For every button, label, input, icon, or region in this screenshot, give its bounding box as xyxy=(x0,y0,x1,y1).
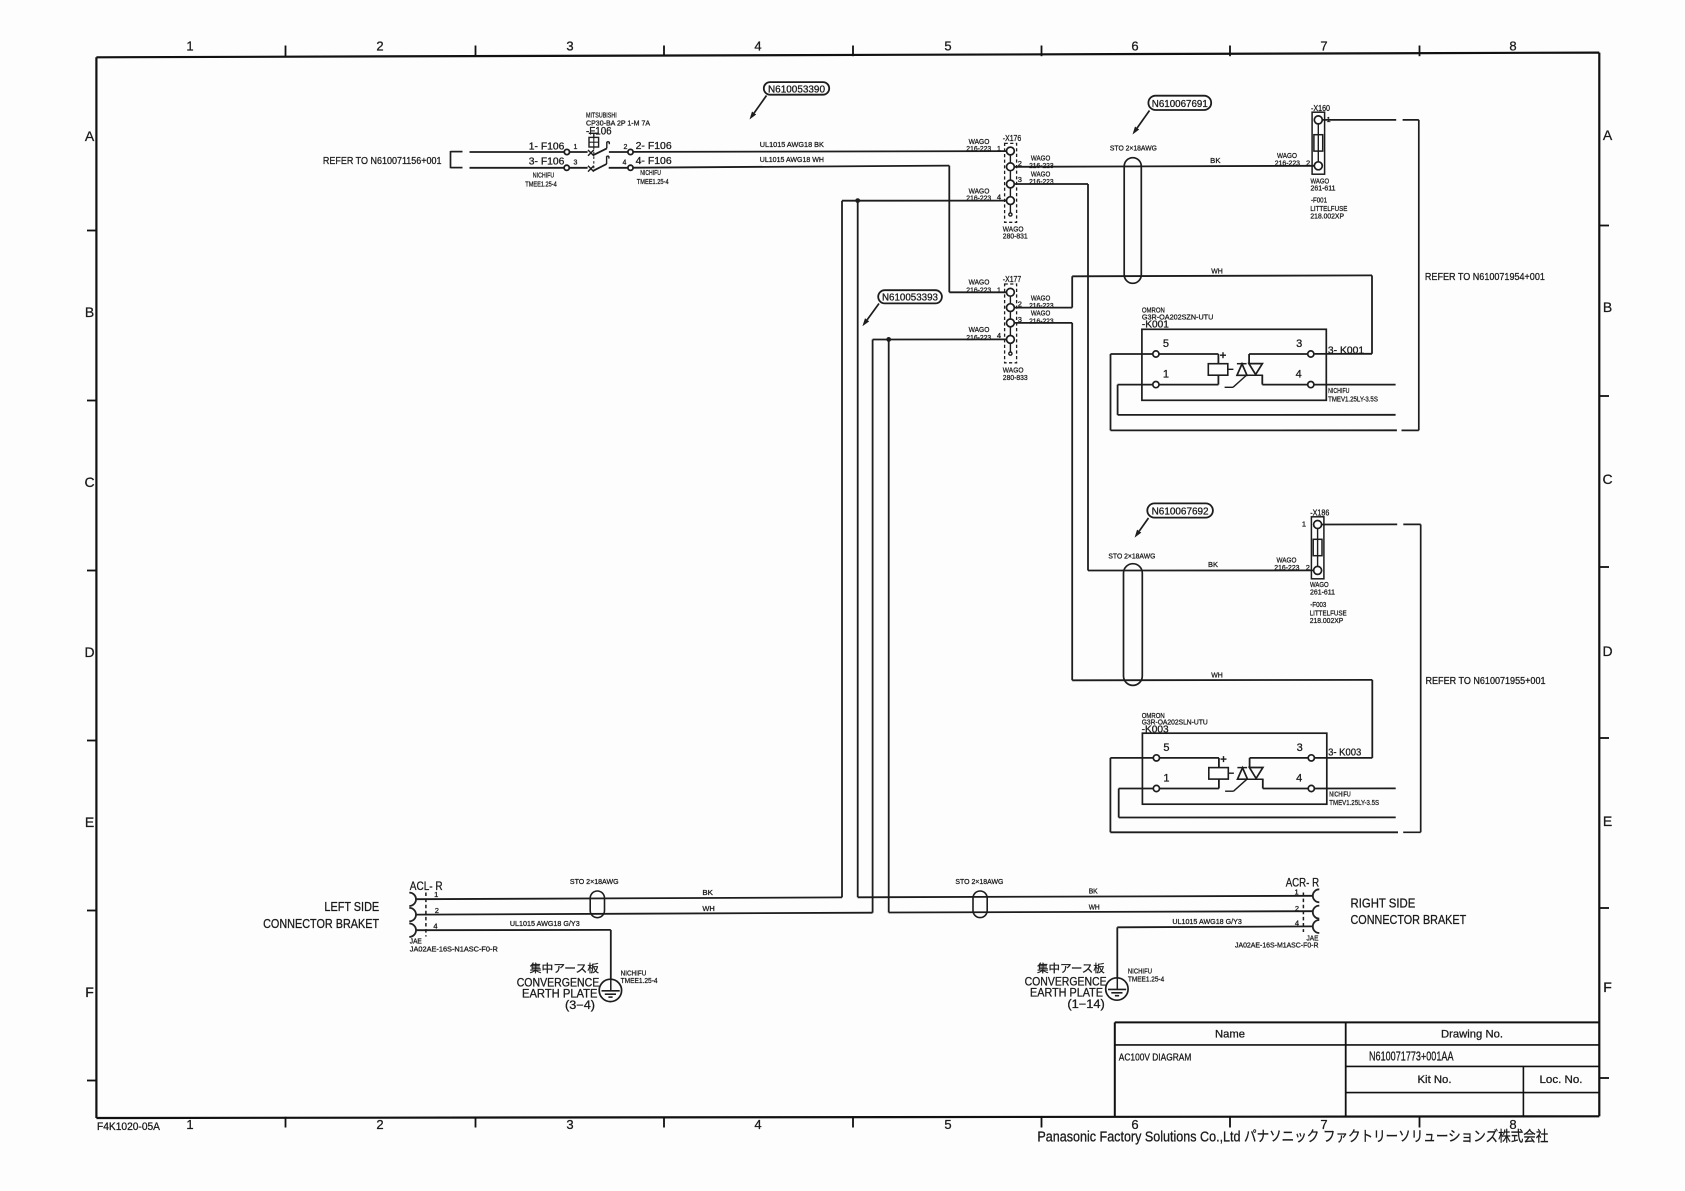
svg-text:3: 3 xyxy=(574,159,578,166)
svg-text:CONNECTOR BRAKET: CONNECTOR BRAKET xyxy=(263,917,379,931)
svg-text:4: 4 xyxy=(754,39,761,54)
svg-text:BK: BK xyxy=(1089,886,1098,895)
svg-text:D: D xyxy=(1602,643,1612,659)
frame column numbers bottom xyxy=(186,1117,1516,1132)
svg-text:-F106: -F106 xyxy=(586,126,612,138)
svg-text:NICHIFU: NICHIFU xyxy=(533,171,554,180)
svg-text:CONNECTOR BRAKET: CONNECTOR BRAKET xyxy=(1351,913,1467,927)
relay K001 pins xyxy=(1153,351,1314,388)
wire G/Y3 ACR-R pin4 to earth plate xyxy=(1117,926,1313,978)
svg-text:STO 2×18AWG: STO 2×18AWG xyxy=(570,877,619,886)
frame row ticks right xyxy=(1599,226,1609,1079)
wire X160 pin1 to right bracket xyxy=(1322,119,1397,121)
svg-text:UL1015 AWG18 WH: UL1015 AWG18 WH xyxy=(760,155,824,164)
relay K003 pin numbers xyxy=(1163,742,1302,785)
svg-text:8: 8 xyxy=(1509,39,1516,54)
svg-text:(3−4): (3−4) xyxy=(565,1000,595,1012)
title block xyxy=(1115,1022,1600,1116)
callout N610067692 xyxy=(1147,503,1213,517)
wire WH lower run to K003 pin3 xyxy=(1072,680,1372,758)
wire BK X176 pin2 to X160 pin2 xyxy=(1014,166,1315,167)
svg-text:TMEE1.25-4: TMEE1.25-4 xyxy=(1128,974,1164,983)
svg-text:4: 4 xyxy=(1296,773,1302,785)
svg-text:RIGHT SIDE: RIGHT SIDE xyxy=(1351,897,1416,911)
cable sheath STO 2x18AWG (middle) xyxy=(1124,564,1143,686)
svg-text:LEFT SIDE: LEFT SIDE xyxy=(324,900,379,914)
svg-text:E: E xyxy=(1603,813,1612,829)
svg-text:TMEE1.25-4: TMEE1.25-4 xyxy=(637,177,669,186)
svg-text:-X177: -X177 xyxy=(1003,275,1022,284)
svg-text:3: 3 xyxy=(1296,338,1302,350)
svg-text:4: 4 xyxy=(433,922,437,931)
svg-text:REFER TO N610071156+001: REFER TO N610071156+001 xyxy=(323,155,442,167)
svg-text:AC100V DIAGRAM: AC100V DIAGRAM xyxy=(1119,1052,1192,1064)
svg-text:1: 1 xyxy=(1163,773,1169,785)
svg-text:集中アース板: 集中アース板 xyxy=(530,961,599,975)
svg-text:B: B xyxy=(85,304,94,320)
svg-text:216-223: 216-223 xyxy=(1029,161,1054,170)
connector ACL-R (JAE JA02AE-16S-N1ASC-F0-R) xyxy=(409,893,426,937)
svg-text:1: 1 xyxy=(186,39,193,54)
wire WH X177 pin2 up and right to K001 pin3 xyxy=(1014,275,1372,354)
svg-text:2: 2 xyxy=(1306,563,1310,572)
F106 terminal labels xyxy=(525,141,672,188)
svg-text:280-831: 280-831 xyxy=(1003,232,1028,241)
svg-text:2: 2 xyxy=(435,906,439,915)
callout N610053393 xyxy=(878,290,942,304)
relay K003 pins xyxy=(1153,755,1314,792)
callout N610067691 arrow xyxy=(1137,111,1149,128)
svg-text:BK: BK xyxy=(1208,560,1218,569)
svg-text:A: A xyxy=(85,128,95,144)
wire X176 pin3 down xyxy=(1014,184,1088,571)
svg-text:261-611: 261-611 xyxy=(1311,184,1336,193)
svg-text:4: 4 xyxy=(1296,369,1302,381)
wire X186 pin1 to right bracket xyxy=(1321,523,1397,525)
wire WH F106 to X177 pin1 xyxy=(633,166,1006,293)
labels NICHIFU TMEE1.25-4 (left earth) xyxy=(621,968,658,985)
svg-text:216-223: 216-223 xyxy=(966,144,991,153)
svg-text:D: D xyxy=(84,644,94,660)
labels JAE JA02AE-16S-N1ASC-F0-R xyxy=(410,937,499,954)
relay K003 internal circuit xyxy=(1159,756,1308,791)
svg-text:5: 5 xyxy=(944,39,951,54)
svg-text:218.002XP: 218.002XP xyxy=(1310,616,1344,625)
relay -K003 labels (OMRON G3R-OA202SLN-UTU) xyxy=(1142,711,1208,736)
callout N610067692 arrow xyxy=(1139,518,1148,531)
svg-text:216-223: 216-223 xyxy=(1029,316,1054,325)
svg-text:3: 3 xyxy=(566,1117,573,1132)
svg-text:E: E xyxy=(85,814,94,830)
relay K001 internal circuit xyxy=(1159,352,1308,387)
svg-text:WH: WH xyxy=(1211,670,1223,679)
svg-text:NICHIFU: NICHIFU xyxy=(640,168,661,177)
wire K003 pin4 to off-page xyxy=(1314,787,1395,789)
label LEFT SIDE CONNECTOR BRAKET xyxy=(263,900,379,931)
relay -K001 labels (OMRON G3R-OA202SZN-UTU) xyxy=(1142,306,1213,331)
wire K001 pin1 loop xyxy=(1118,385,1396,415)
svg-text:Drawing No.: Drawing No. xyxy=(1441,1029,1503,1041)
svg-text:218.002XP: 218.002XP xyxy=(1310,211,1344,220)
X186 labels xyxy=(1274,509,1346,625)
wire BK from bracket to breaker F106 terminal 1 xyxy=(470,151,565,153)
svg-text:5: 5 xyxy=(1163,338,1169,350)
wire WH from bracket to breaker F106 terminal 3 xyxy=(470,167,565,169)
svg-text:A: A xyxy=(1603,127,1613,143)
svg-text:261-611: 261-611 xyxy=(1310,588,1335,597)
X160 labels xyxy=(1275,104,1348,220)
svg-text:1: 1 xyxy=(997,144,1001,153)
labels NICHIFU TMEE1.25-4 (right earth) xyxy=(1128,967,1164,984)
svg-text:TMEE1.25-4: TMEE1.25-4 xyxy=(525,179,557,188)
svg-text:1: 1 xyxy=(1302,520,1306,529)
connector -X177 (WAGO 280-833 strip) xyxy=(1005,284,1017,363)
svg-text:216-223: 216-223 xyxy=(966,333,991,342)
fuse holder -X160 with fuse -F001 (LITTELFUSE 218.002XP) xyxy=(1312,112,1325,174)
callout N610053390 arrow xyxy=(754,96,766,113)
svg-text:Panasonic Factory Solutions Co: Panasonic Factory Solutions Co.,Ltd パナソニ… xyxy=(1037,1129,1548,1146)
svg-text:集中アース板: 集中アース板 xyxy=(1037,961,1105,975)
svg-text:TMEV1.25LY-3.5S: TMEV1.25LY-3.5S xyxy=(1329,798,1379,807)
labels convergence earth plate (1-14) xyxy=(1025,961,1107,1011)
svg-text:7: 7 xyxy=(1320,39,1327,54)
svg-text:B: B xyxy=(1603,299,1612,315)
wire BK X176 pin3 vertical to X186 pin2 xyxy=(1088,569,1314,571)
junction dot X176 pin4 branch xyxy=(855,198,860,203)
label RIGHT SIDE CONNECTOR BRAKET xyxy=(1351,897,1467,927)
circuit breaker F106 (MITSUBISHI CP30-BA 2P 1-M 7A) xyxy=(564,133,633,171)
svg-text:BK: BK xyxy=(702,888,713,897)
frame column ticks top xyxy=(286,46,1420,57)
title block texts xyxy=(1119,1029,1583,1087)
wire X177 pin4 to left verticals xyxy=(873,339,1007,912)
svg-text:ACR- R: ACR- R xyxy=(1286,876,1320,890)
earth ground symbol (right convergence earth plate) xyxy=(1106,978,1128,1000)
svg-text:6: 6 xyxy=(1131,39,1138,54)
svg-text:2: 2 xyxy=(1306,158,1310,167)
wire K001 pin4 to off-page xyxy=(1314,384,1396,386)
svg-text:5: 5 xyxy=(944,1117,951,1132)
svg-text:N610067692: N610067692 xyxy=(1152,507,1209,518)
frame column numbers top xyxy=(186,39,1516,54)
svg-text:BK: BK xyxy=(1210,156,1220,165)
svg-text:N610053393: N610053393 xyxy=(882,293,938,304)
svg-text:280-833: 280-833 xyxy=(1003,373,1028,382)
cable sheath STO 2x18AWG (bottom right) xyxy=(973,891,987,918)
wire WH bottom left (ACL-R pin2) xyxy=(416,913,873,915)
F106 part labels xyxy=(586,110,650,137)
svg-text:2: 2 xyxy=(376,39,383,54)
svg-text:5: 5 xyxy=(1163,742,1169,754)
svg-text:3: 3 xyxy=(1018,175,1022,184)
X176 pin labels WAGO 216-223 xyxy=(966,137,1053,203)
svg-text:3: 3 xyxy=(1297,742,1303,754)
svg-text:4: 4 xyxy=(1295,919,1299,928)
wire X177 pin3 down to lower WH xyxy=(1014,323,1072,680)
svg-text:1- F106: 1- F106 xyxy=(529,141,565,152)
svg-text:C: C xyxy=(84,474,94,490)
svg-text:3- K003: 3- K003 xyxy=(1328,747,1361,759)
labels NICHIFU TMEV1.25LY-3.5S (K003 pin4) xyxy=(1329,789,1379,806)
svg-text:REFER TO N610071954+001: REFER TO N610071954+001 xyxy=(1425,271,1545,283)
wire G/Y3 ACL-R pin4 to earth plate xyxy=(416,930,611,979)
off-page bracket REFER TO N610071955+001 xyxy=(1403,524,1421,832)
svg-text:2: 2 xyxy=(376,1117,383,1132)
callout N610053393 arrow xyxy=(867,304,879,320)
callout N610067691 xyxy=(1148,96,1211,110)
wire WH bottom right (to ACR-R pin2) xyxy=(889,911,1313,912)
labels convergence earth plate (3-4) xyxy=(517,961,600,1012)
svg-text:UL1015 AWG18 G/Y3: UL1015 AWG18 G/Y3 xyxy=(1172,917,1242,926)
svg-text:4: 4 xyxy=(754,1117,761,1132)
svg-text:F: F xyxy=(1603,979,1612,995)
wire X176 pin4 to left verticals xyxy=(842,201,1007,898)
svg-text:EARTH PLATE: EARTH PLATE xyxy=(522,988,598,1000)
svg-text:WH: WH xyxy=(1211,267,1223,276)
svg-text:JA02AE-16S-M1ASC-F0-R: JA02AE-16S-M1ASC-F0-R xyxy=(1235,940,1319,949)
ACR-R pin numbers xyxy=(1295,888,1299,928)
solid state relay relay K001 box xyxy=(1142,329,1326,400)
svg-text:216-223: 216-223 xyxy=(1274,563,1299,572)
svg-text:WH: WH xyxy=(1089,902,1100,911)
frame row letters left xyxy=(84,128,94,1000)
frame column ticks bottom xyxy=(286,1117,1420,1128)
off-page bracket REFER TO N610071954+001 xyxy=(1402,120,1419,431)
svg-text:-X160: -X160 xyxy=(1311,104,1330,113)
frame row letters right xyxy=(1602,127,1612,995)
svg-text:4: 4 xyxy=(623,159,627,166)
svg-text:3: 3 xyxy=(566,39,573,54)
svg-text:-X176: -X176 xyxy=(1003,134,1022,143)
wire K001 pin5 loop to bracket xyxy=(1111,354,1397,430)
label WAGO 280-833 xyxy=(1003,365,1028,381)
X177 pin labels WAGO 216-223 xyxy=(966,277,1053,342)
svg-text:UL1015 AWG18 G/Y3: UL1015 AWG18 G/Y3 xyxy=(510,919,580,928)
svg-text:N610067691: N610067691 xyxy=(1152,99,1208,110)
svg-text:4- F106: 4- F106 xyxy=(636,156,673,167)
svg-text:STO 2×18AWG: STO 2×18AWG xyxy=(955,877,1003,886)
labels JAE JA02AE-16S-M1ASC-F0-R xyxy=(1235,934,1319,950)
svg-text:3- K001: 3- K001 xyxy=(1328,344,1364,356)
svg-text:EARTH PLATE: EARTH PLATE xyxy=(1030,988,1103,1000)
fuse holder -X186 with fuse -F003 (LITTELFUSE 218.002XP) xyxy=(1311,517,1324,579)
svg-text:2: 2 xyxy=(624,144,628,151)
svg-text:F4K1020-05A: F4K1020-05A xyxy=(97,1121,161,1133)
bottom wire labels BK WH left half xyxy=(702,888,714,913)
svg-text:Loc. No.: Loc. No. xyxy=(1540,1074,1583,1086)
wire BK bottom left (ACL-R pin1 up to X176 pin4 net) xyxy=(416,897,842,899)
drawing border frame xyxy=(96,53,1599,1118)
svg-text:STO 2×18AWG: STO 2×18AWG xyxy=(1108,551,1155,560)
connector -X176 (WAGO 280-831 strip) xyxy=(1005,143,1017,222)
wire K003 pin5 loop to bracket xyxy=(1110,758,1398,832)
callout N610053390 xyxy=(764,82,829,95)
wire BK F106 to X176 pin1 xyxy=(633,150,1006,153)
svg-text:N610053390: N610053390 xyxy=(768,84,825,95)
svg-text:Kit No.: Kit No. xyxy=(1418,1074,1452,1086)
svg-text:JA02AE-16S-N1ASC-F0-R: JA02AE-16S-N1ASC-F0-R xyxy=(410,945,499,954)
svg-text:WH: WH xyxy=(702,904,714,913)
cable sheath STO 2x18AWG (upper) xyxy=(1124,158,1141,284)
svg-text:1: 1 xyxy=(186,1117,193,1132)
frame row ticks left xyxy=(87,231,96,1081)
svg-text:1: 1 xyxy=(1295,888,1299,897)
svg-text:216-223: 216-223 xyxy=(966,286,991,295)
svg-text:3- F106: 3- F106 xyxy=(529,157,565,168)
svg-text:N610071773+001AA: N610071773+001AA xyxy=(1369,1050,1454,1064)
svg-text:STO 2×18AWG: STO 2×18AWG xyxy=(1110,144,1157,153)
svg-text:-X186: -X186 xyxy=(1310,509,1329,518)
svg-text:Name: Name xyxy=(1215,1029,1245,1041)
svg-text:TMEV1.25LY-3.5S: TMEV1.25LY-3.5S xyxy=(1328,394,1378,403)
svg-text:REFER TO N610071955+001: REFER TO N610071955+001 xyxy=(1426,675,1546,687)
left source bracket xyxy=(451,151,463,168)
labels NICHIFU TMEV1.25LY-3.5S (K001 pin4) xyxy=(1328,386,1378,403)
svg-text:(1−14): (1−14) xyxy=(1067,999,1105,1011)
svg-text:1: 1 xyxy=(997,286,1001,295)
svg-text:C: C xyxy=(1602,471,1612,487)
svg-text:2: 2 xyxy=(1295,904,1299,913)
earth ground symbol (left convergence earth plate) xyxy=(599,979,621,1001)
cable sheath STO 2x18AWG (bottom left) xyxy=(590,891,604,918)
junction dot X177 pin4 branch xyxy=(886,337,891,342)
wire BK bottom right (to ACR-R pin1) xyxy=(858,896,1313,898)
svg-text:UL1015 AWG18 BK: UL1015 AWG18 BK xyxy=(760,140,824,149)
svg-text:1: 1 xyxy=(434,890,438,899)
svg-text:1: 1 xyxy=(574,144,578,151)
relay K001 pin numbers xyxy=(1163,338,1302,381)
label WAGO 280-831 xyxy=(1003,225,1028,241)
svg-text:TMEE1.25-4: TMEE1.25-4 xyxy=(621,976,658,985)
svg-text:216-223: 216-223 xyxy=(1275,159,1300,168)
svg-text:2- F106: 2- F106 xyxy=(636,141,673,152)
wire K003 pin1 loop xyxy=(1119,789,1396,818)
bottom wire labels BK WH right half xyxy=(1089,886,1100,911)
svg-text:F: F xyxy=(85,984,94,1000)
ACL-R pin numbers xyxy=(433,890,439,931)
connector ACR-R (JAE JA02AE-16S-M1ASC-F0-R) xyxy=(1303,889,1319,933)
svg-text:1: 1 xyxy=(1163,369,1169,381)
solid state relay relay K003 box xyxy=(1142,733,1326,804)
